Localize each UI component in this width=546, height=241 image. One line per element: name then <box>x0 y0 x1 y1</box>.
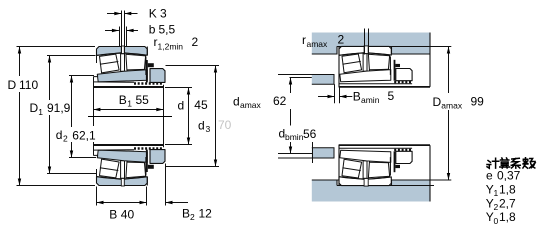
svg-text:2,7: 2,7 <box>499 196 516 210</box>
dimension d2 62,1 <box>69 76 96 158</box>
housing lower outline <box>337 145 430 201</box>
housing upper outline <box>312 33 430 87</box>
dimension B1 55 <box>93 108 163 111</box>
svg-text:45: 45 <box>194 98 208 112</box>
svg-text:amax: amax <box>307 39 329 49</box>
svg-text:2: 2 <box>494 202 499 212</box>
svg-text:2: 2 <box>192 35 199 49</box>
svg-text:r: r <box>302 33 306 47</box>
svg-text:62: 62 <box>273 94 287 108</box>
lower bore line <box>337 185 434 187</box>
算 <box>500 158 510 168</box>
housing bore / Da extension line <box>337 46 451 48</box>
svg-text:1,2min: 1,2min <box>158 42 184 52</box>
数 <box>523 158 535 168</box>
svg-text:2: 2 <box>338 33 345 47</box>
bearing upper half <box>93 46 165 87</box>
svg-text:K: K <box>149 7 157 21</box>
dimension D 110 <box>17 47 96 186</box>
bearing lower half (mirrored) <box>93 145 165 186</box>
svg-text:D: D <box>8 78 17 92</box>
svg-text:d: d <box>56 128 63 142</box>
svg-text:40: 40 <box>121 208 135 222</box>
svg-text:e: e <box>486 169 493 183</box>
svg-text:amax: amax <box>240 100 262 110</box>
svg-text:Y: Y <box>486 210 494 224</box>
svg-text:5: 5 <box>388 89 395 103</box>
svg-text:d: d <box>198 119 205 133</box>
svg-text:3: 3 <box>160 7 167 21</box>
svg-text:55: 55 <box>136 93 150 107</box>
svg-text:1: 1 <box>127 99 132 109</box>
svg-text:Y: Y <box>486 182 494 196</box>
系 <box>511 158 520 168</box>
svg-text:62,1: 62,1 <box>72 129 96 143</box>
svg-text:B: B <box>182 206 190 220</box>
svg-text:B: B <box>353 89 361 103</box>
svg-text:B: B <box>109 208 117 222</box>
sleeve slot edge lines (right figure) <box>364 29 366 55</box>
dimension K 3 <box>107 12 138 15</box>
mounted bearing upper half <box>339 46 430 88</box>
shaft shoulder lower (blue) <box>312 148 334 158</box>
svg-text:D: D <box>30 101 39 115</box>
svg-text:1: 1 <box>494 188 499 198</box>
svg-text:amin: amin <box>361 95 380 105</box>
sleeve left face line <box>93 77 95 127</box>
axis line <box>88 116 172 118</box>
svg-text:amax: amax <box>441 101 463 111</box>
svg-text:70: 70 <box>218 118 232 132</box>
shaft shoulder lower outline <box>278 148 334 158</box>
dimension b 5,5 <box>105 29 138 32</box>
shaft shoulder upper outline <box>278 75 334 85</box>
dimension B2 12 <box>166 164 189 206</box>
svg-text:1,8: 1,8 <box>499 210 516 224</box>
svg-text:Y: Y <box>486 196 494 210</box>
svg-text:3: 3 <box>206 124 211 134</box>
housing lower section (blue) <box>312 180 430 202</box>
shaft shoulder upper (blue) <box>312 75 334 85</box>
svg-text:2: 2 <box>190 212 195 222</box>
housing lower bore notch <box>337 180 392 186</box>
svg-text:0: 0 <box>494 216 499 226</box>
dimension B 40 <box>97 187 147 206</box>
calculation factors table <box>487 158 535 169</box>
dimension D1 91,9 <box>47 56 96 174</box>
sleeve right face line <box>163 85 165 147</box>
svg-text:1,8: 1,8 <box>499 182 516 196</box>
svg-text:1: 1 <box>38 107 43 117</box>
svg-text:d: d <box>178 99 185 113</box>
svg-text:99: 99 <box>471 95 485 109</box>
housing upper section (blue) <box>312 33 430 55</box>
svg-text:d: d <box>233 95 240 109</box>
b extension lines <box>119 27 121 48</box>
housing bore notch for bearing <box>337 46 392 54</box>
svg-text:bmin: bmin <box>285 132 304 142</box>
svg-text:2: 2 <box>63 134 68 144</box>
svg-text:56: 56 <box>303 127 317 141</box>
dimension D_amax 99 <box>447 47 450 181</box>
dimension B_amin 5 <box>318 84 352 103</box>
svg-text:0,37: 0,37 <box>497 169 521 183</box>
svg-text:110: 110 <box>19 78 38 92</box>
svg-text:B: B <box>119 93 127 107</box>
dimension d_amax 62 / d_bmin 56 <box>278 78 312 154</box>
svg-text:5,5: 5,5 <box>159 23 176 37</box>
dimension d3 70 <box>166 66 220 167</box>
housing lower top edge / Da extension line <box>312 179 452 181</box>
sleeve slot edge lines <box>121 11 123 54</box>
svg-text:91,9: 91,9 <box>47 101 71 115</box>
svg-text:D: D <box>433 95 442 109</box>
shoulder left edge lower <box>312 142 314 163</box>
计 <box>487 158 499 168</box>
mounted bearing lower half (mirrored) <box>339 145 430 187</box>
dimension d 45 <box>165 88 192 145</box>
svg-text:12: 12 <box>199 206 213 220</box>
